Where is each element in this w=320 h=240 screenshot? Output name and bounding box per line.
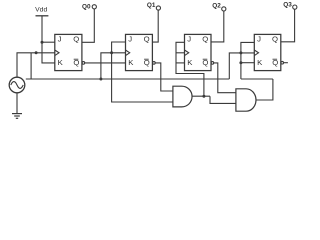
svg-text:K: K (257, 58, 263, 67)
U2 pin labels (128, 34, 150, 67)
svg-text:K: K (58, 58, 64, 67)
U4 Q-bar overline (273, 58, 278, 60)
terminal Q3 (293, 5, 297, 9)
AND gate G2 (236, 89, 256, 111)
Vdd supply symbol (36, 16, 49, 42)
wire Q0 output riser (82, 9, 94, 42)
wire bottom clock rail (31, 78, 229, 80)
wire Q1 output riser (152, 10, 158, 42)
ground (12, 93, 22, 119)
JK flip-flop U1 (55, 34, 85, 70)
svg-text:J: J (128, 34, 132, 43)
wire Q1bar net to K2 (85, 62, 126, 64)
svg-text:J: J (257, 34, 261, 43)
wire Q2bar to AND1 input A (155, 63, 173, 91)
U3 pin labels (187, 34, 208, 67)
node Vdd-J1 junction (41, 41, 44, 44)
wire clk3 line (176, 52, 185, 54)
svg-text:Q1: Q1 (147, 2, 156, 9)
wire J1 input (42, 41, 55, 43)
wire AND1 output (192, 95, 210, 97)
svg-text:Vdd: Vdd (35, 6, 47, 13)
svg-text:Q3: Q3 (283, 2, 292, 9)
U3 Q-bar overline (203, 58, 208, 60)
svg-text:Q0: Q0 (82, 4, 91, 11)
node clock J2 feed junction (110, 51, 113, 54)
svg-text:Q: Q (202, 34, 208, 43)
U2 Q-bar overline (144, 58, 149, 60)
svg-text:J: J (187, 34, 191, 43)
wire K3 line (176, 62, 185, 64)
wire AND1 out feed to U3 (176, 42, 204, 96)
JK flip-flop U3 (185, 34, 214, 70)
node AND1 output junction (202, 95, 205, 98)
svg-text:Q: Q (73, 34, 79, 43)
wire clock drop to bottom rail (26, 53, 31, 79)
U1 pin labels (58, 34, 80, 67)
node K4 junction (239, 61, 242, 64)
AC source V1 (9, 77, 25, 93)
node clk4 feed junction (239, 51, 242, 54)
wire Q3 output riser (281, 9, 295, 42)
terminal Q1 (156, 6, 160, 10)
wire Q2 output riser (211, 11, 224, 42)
svg-text:K: K (187, 58, 193, 67)
svg-text:J: J (58, 34, 62, 43)
wire Q4bar stub (284, 62, 288, 64)
svg-text:Q: Q (144, 34, 150, 43)
svg-text:Q2: Q2 (212, 3, 221, 10)
svg-text:K: K (128, 58, 134, 67)
wire K4 line (241, 62, 254, 64)
svg-text:Q: Q (272, 34, 278, 43)
U1 Q-bar overline (74, 58, 79, 60)
wire AND2 feed to U4 (241, 42, 254, 79)
U4 pin labels (257, 34, 278, 67)
wire clk4 riser (229, 53, 254, 79)
AND gate G1 (173, 86, 192, 107)
wire AND1 out to AND2 input B (210, 96, 236, 103)
JK flip-flop U2 (126, 34, 156, 70)
wire J2 feed vertical (112, 42, 173, 102)
terminal Q2 (222, 7, 226, 11)
wire Vdd to K1 (42, 42, 55, 63)
node clock riser rail junction (99, 78, 102, 81)
node clock junction (35, 51, 38, 54)
wire Q3bar to AND2 input A (214, 63, 236, 93)
wire AND2 output (256, 79, 273, 100)
JK flip-flop U4 (254, 34, 283, 70)
wire clock riser FF2 (101, 53, 126, 79)
terminal Q0 (92, 5, 96, 9)
wire source to clock rail (17, 53, 55, 77)
